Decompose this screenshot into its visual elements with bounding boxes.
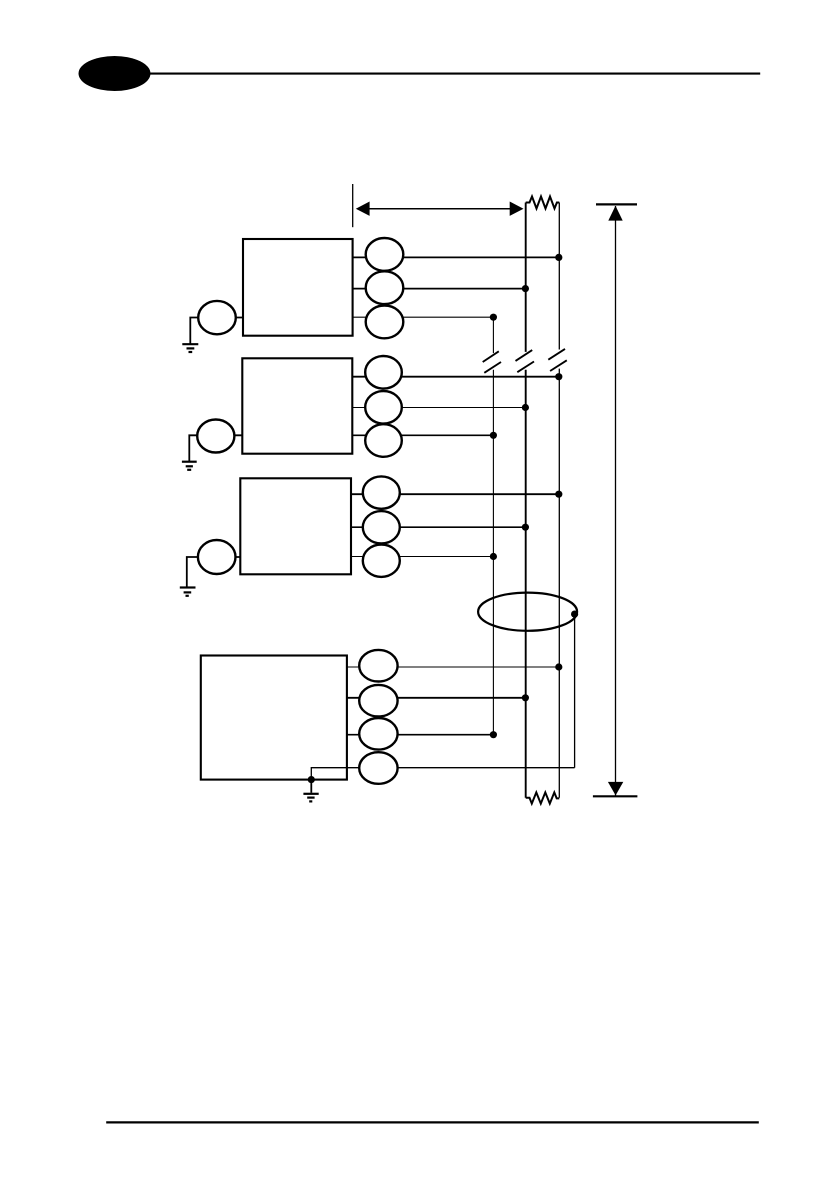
terminal circle U1-T1 xyxy=(366,238,404,271)
wire U3 terminal 1 to bus B3 xyxy=(351,493,559,495)
wire U2 terminal 2 to bus B2 xyxy=(352,407,525,409)
dimension arrowhead up xyxy=(608,206,622,221)
wire U1 ground lead xyxy=(190,318,243,345)
break mark on bus B2 xyxy=(516,350,535,372)
junction node U2-T2/B2 xyxy=(522,404,529,411)
junction node U4-T1/B3 xyxy=(555,663,562,670)
wire U4 terminal 3 to bus B1 xyxy=(347,734,494,736)
unit box U4 xyxy=(201,656,347,780)
terminal circle U3-T3 xyxy=(363,545,400,577)
wire U3 ground lead xyxy=(187,557,241,587)
terminal circle U3-T1 xyxy=(363,476,400,508)
terminal circle U4-T4 shield xyxy=(359,752,397,784)
unit box U3 xyxy=(240,478,351,574)
junction node U2-T1/B3 xyxy=(555,373,562,380)
bus B1 upper segment xyxy=(492,317,494,353)
terminal circle U2-T1 xyxy=(365,356,402,389)
terminal circle U1-T2 xyxy=(366,271,404,304)
dimension tick (left reference) xyxy=(352,184,354,227)
junction node U1-T2/B2 xyxy=(522,285,529,292)
header chapter bullet xyxy=(79,56,151,91)
shield loop ellipse xyxy=(478,593,577,631)
drop line B4 from shield node xyxy=(574,614,576,768)
bus B2 lower segment xyxy=(525,370,527,798)
ground G2 xyxy=(182,462,197,470)
unit box U1 xyxy=(243,239,353,336)
signal ground circle P2 xyxy=(197,420,234,453)
header rule xyxy=(148,73,760,75)
break mark on bus B3 xyxy=(548,349,567,371)
junction node shield/B4 xyxy=(571,611,578,618)
unit box U2 xyxy=(242,358,352,453)
terminal circle U1-T3 xyxy=(366,306,404,339)
break mark on bus B1 xyxy=(483,351,501,373)
bus B3 lower segment xyxy=(558,369,560,798)
terminating resistor R2 (bottom) xyxy=(526,792,560,803)
dimension cap bottom xyxy=(593,795,638,797)
junction node U1-T1/B3 xyxy=(555,254,562,261)
wire U4 shield terminal to drop line B4 xyxy=(311,768,574,780)
terminal circle U2-T2 xyxy=(365,391,402,424)
junction node U4-T2/B2 xyxy=(522,694,529,701)
junction node U1-T3/B1 xyxy=(490,314,497,321)
junction node U2-T3/B1 xyxy=(490,432,497,439)
signal ground circle P1 xyxy=(198,301,236,334)
terminal circle U4-T3 xyxy=(359,718,397,750)
dimension arrow (horizontal span) xyxy=(356,202,524,216)
wire U2 ground lead xyxy=(189,435,242,461)
junction node U3-T3/B1 xyxy=(490,553,497,560)
terminal circle U2-T3 xyxy=(365,424,402,457)
terminal circle U4-T1 xyxy=(359,650,397,682)
wire U3 terminal 3 to bus B1 xyxy=(351,556,493,558)
terminal circle U4-T2 xyxy=(359,685,397,717)
bus B3 upper segment xyxy=(558,203,560,350)
wire U2 terminal 3 to bus B1 xyxy=(352,434,493,436)
terminating resistor R1 (top) xyxy=(526,197,560,209)
wire U2 terminal 1 to bus B3 xyxy=(352,376,559,378)
ground G4 xyxy=(303,780,318,802)
wire U3 terminal 2 to bus B2 xyxy=(351,526,525,528)
wire U1 terminal 3 to bus B1 xyxy=(353,316,494,318)
junction node U4-T3/B1 xyxy=(490,731,497,738)
ground G1 xyxy=(182,344,198,352)
junction node U4 ground xyxy=(308,776,315,783)
wire U4 terminal 1 to bus B3 xyxy=(347,666,559,668)
ground G3 xyxy=(180,588,196,596)
junction node U3-T1/B3 xyxy=(555,491,562,498)
signal ground circle P3 xyxy=(198,540,236,574)
wire U4 terminal 2 to bus B2 xyxy=(347,697,526,699)
junction node U3-T2/B2 xyxy=(522,524,529,531)
dimension arrowhead down xyxy=(608,782,623,796)
terminal circle U3-T2 xyxy=(363,511,400,543)
wire U1 terminal 1 to bus B3 xyxy=(353,256,559,258)
footer rule xyxy=(106,1121,759,1123)
dimension cap top xyxy=(596,203,637,205)
bus B2 upper segment xyxy=(525,203,527,352)
bus B1 lower segment xyxy=(492,370,494,735)
dimension line (vertical total length) xyxy=(615,206,617,796)
wire U1 terminal 2 to bus B2 xyxy=(353,288,526,290)
